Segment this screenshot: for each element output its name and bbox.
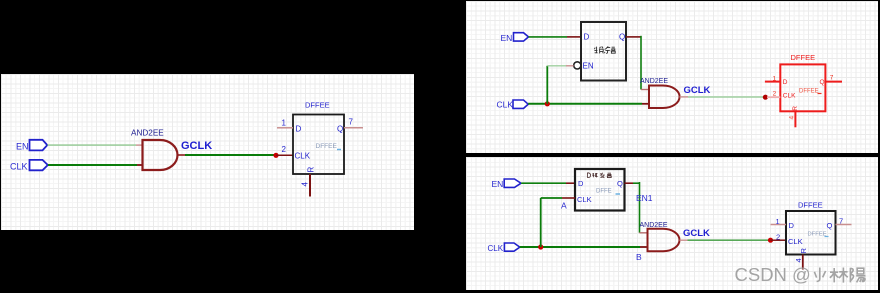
pin name D red	[783, 79, 788, 86]
svg-text:EN: EN	[492, 179, 504, 189]
latch pin name D	[584, 33, 590, 42]
svg-text:7: 7	[830, 75, 834, 82]
svg-text:Q: Q	[617, 179, 623, 188]
wire latch Q to AND gate	[626, 36, 649, 90]
svg-text:D: D	[789, 221, 795, 230]
svg-text:R: R	[799, 248, 808, 254]
panel 2 drawing	[466, 1, 878, 153]
wire Q to AND gate	[625, 182, 648, 233]
wire GCLK to DFF	[680, 239, 771, 241]
port EN label	[16, 142, 29, 152]
pin name CLK	[788, 237, 803, 246]
pin 1 stub	[277, 127, 293, 129]
pin number 1	[776, 217, 780, 226]
svg-text:Q: Q	[619, 33, 625, 42]
svg-text:Q: Q	[337, 125, 343, 134]
svg-text:DFFEE: DFFEE	[316, 143, 338, 150]
latch pin name EN	[583, 62, 594, 71]
svg-text:Q: Q	[820, 79, 825, 86]
watermark CSDN	[735, 264, 866, 285]
pin name Q	[827, 221, 833, 230]
pin name R rotated	[307, 167, 316, 173]
DFF U8 box	[786, 211, 836, 255]
svg-text:GCLK: GCLK	[684, 85, 711, 96]
pin number 1	[282, 119, 287, 128]
svg-text:CSDN @: CSDN @	[735, 264, 811, 285]
block type label D触发器	[587, 173, 611, 178]
pin number 4 rotated	[794, 258, 803, 262]
latch EN bubble	[574, 62, 581, 69]
svg-text:CLK: CLK	[788, 237, 803, 246]
pin name D	[296, 125, 302, 134]
port EN label	[501, 33, 513, 43]
svg-text:1: 1	[282, 119, 287, 128]
label DFFEE	[798, 201, 823, 210]
pin number 7	[349, 118, 354, 127]
svg-text:CLK: CLK	[488, 244, 504, 253]
svg-text:DFFEE: DFFEE	[798, 201, 823, 210]
label DFFEE red	[791, 53, 816, 62]
pin name Q red	[820, 79, 825, 86]
wire CLK branch to block CLK	[541, 198, 575, 247]
svg-text:2: 2	[282, 145, 287, 154]
pin 4 wire R	[309, 174, 311, 197]
svg-text:D: D	[578, 179, 584, 188]
block pin name CLK	[577, 195, 592, 204]
svg-text:4: 4	[794, 258, 803, 262]
pin number 4 rotated	[301, 182, 310, 187]
AND gate U7	[648, 229, 680, 251]
DFF U2 box	[293, 115, 344, 175]
net label GCLK	[181, 140, 212, 152]
svg-text:DFFE: DFFE	[596, 189, 612, 195]
svg-text:7: 7	[839, 217, 843, 226]
svg-text:R: R	[792, 106, 799, 111]
pin number 7 red	[830, 75, 834, 82]
svg-text:AND2EE: AND2EE	[640, 222, 668, 229]
pin 2 stub CLK	[771, 239, 787, 241]
net label GCLK	[684, 85, 711, 96]
svg-text:AND2EE: AND2EE	[131, 129, 164, 138]
svg-text:D: D	[584, 33, 590, 42]
label AND2EE	[640, 222, 668, 229]
port CLK	[504, 243, 519, 251]
svg-text:DFFEE: DFFEE	[305, 101, 330, 110]
svg-text:7: 7	[349, 118, 354, 127]
wire EN to DFF block	[521, 182, 575, 184]
block pin name D	[578, 179, 584, 188]
schematic sheet panel 2 (top right)	[466, 1, 878, 153]
net label GCLK	[683, 228, 710, 239]
svg-text:1: 1	[773, 76, 777, 83]
latch pin name Q	[619, 33, 625, 42]
wire EN to latch D	[529, 36, 582, 38]
AND gate U1	[143, 140, 178, 170]
svg-text:2: 2	[776, 233, 780, 242]
svg-text:R: R	[307, 167, 316, 173]
pin number 7	[839, 217, 843, 226]
port CLK	[30, 160, 48, 170]
junction dot DFF clk	[768, 238, 773, 243]
schematic sheet panel 3 (bottom right)	[466, 157, 878, 290]
svg-text:GCLK: GCLK	[683, 228, 710, 239]
svg-text:D: D	[296, 125, 302, 134]
svg-text:A: A	[561, 201, 567, 211]
latch type text 锁存器	[594, 46, 615, 53]
pin 7 stub	[344, 127, 363, 129]
wire CLK to AND gate	[520, 246, 648, 248]
svg-text:D: D	[783, 79, 788, 86]
wire CLK to AND gate	[48, 164, 142, 166]
svg-text:CLK: CLK	[295, 152, 311, 161]
junction dot	[273, 153, 278, 158]
pin number 4 red rotated	[789, 116, 796, 120]
port CLK label	[488, 244, 504, 253]
wire EN to AND gate	[48, 144, 143, 146]
pin 2 stub CLK	[276, 154, 293, 156]
pin 7 stub	[836, 224, 852, 226]
svg-text:B: B	[636, 252, 642, 262]
svg-text:EN: EN	[501, 33, 513, 43]
svg-text:1: 1	[776, 217, 780, 226]
block type text DFFE_	[596, 189, 620, 195]
svg-text:CLK: CLK	[10, 161, 28, 171]
port EN	[30, 140, 48, 151]
svg-text:AND2EE: AND2EE	[640, 78, 668, 85]
svg-text:EN: EN	[583, 62, 594, 71]
pin name R rotated	[799, 248, 808, 254]
net label EN1	[636, 193, 653, 203]
svg-text:4: 4	[301, 182, 310, 187]
svg-text:Q: Q	[827, 221, 833, 230]
net label B	[636, 252, 642, 262]
pin 7 stub red	[825, 81, 842, 83]
pin 4 wire R red	[794, 111, 796, 127]
pin 1 stub	[771, 224, 787, 226]
svg-text:DFFEE: DFFEE	[799, 89, 819, 95]
net label A	[561, 201, 567, 211]
svg-text:CLK: CLK	[783, 93, 796, 100]
port EN label	[492, 179, 504, 189]
pin number 2	[282, 145, 287, 154]
label AND2EE	[131, 129, 164, 138]
svg-text:EN: EN	[16, 142, 29, 152]
pin number 2 red	[773, 90, 777, 97]
pin name Q	[337, 125, 343, 134]
part type text DFFEE_	[316, 143, 342, 150]
pin 2 stub pale	[767, 96, 780, 98]
port CLK label	[497, 99, 514, 109]
wire GCLK to DFF	[680, 96, 766, 98]
svg-text:DFFEE: DFFEE	[791, 53, 816, 62]
pin number 1 red	[773, 76, 777, 83]
pin name CLK red	[783, 93, 796, 100]
svg-text:CLK: CLK	[497, 99, 514, 109]
junction dot DFF clk	[763, 95, 768, 100]
selected DFF U5 box (red)	[780, 64, 825, 111]
pin number 2	[776, 233, 780, 242]
wire GCLK gate output to DFF	[178, 154, 277, 156]
part type text DFFEE_ red	[799, 89, 822, 95]
junction dot CLK	[538, 244, 543, 249]
port EN	[514, 33, 529, 41]
wire CLK branch to latch EN	[547, 66, 573, 104]
pin 4 wire R	[802, 255, 804, 270]
AND gate U4	[649, 86, 680, 109]
schematic sheet panel 1 (left)	[1, 74, 414, 230]
latch U3 box	[581, 22, 626, 81]
svg-text:GCLK: GCLK	[181, 140, 212, 152]
svg-text:2: 2	[773, 90, 777, 97]
pin name R red rotated	[792, 106, 799, 111]
svg-text:EN1: EN1	[636, 193, 653, 203]
panel 3 drawing	[466, 157, 878, 290]
svg-text:DFFEE: DFFEE	[808, 232, 827, 238]
panel 1 drawing	[1, 74, 414, 230]
port CLK label	[10, 161, 28, 171]
port EN	[504, 179, 521, 187]
pin 1 stub red	[765, 81, 780, 83]
pin name D	[789, 221, 795, 230]
junction dot CLK	[545, 101, 550, 106]
part type text DFFEE_	[808, 232, 829, 238]
DFF block U6 box	[575, 169, 625, 211]
block pin name Q	[617, 179, 623, 188]
svg-text:CLK: CLK	[577, 195, 592, 204]
label AND2EE	[640, 78, 668, 85]
label DFFEE	[305, 101, 330, 110]
wire CLK to AND gate	[528, 103, 649, 105]
pin name CLK	[295, 152, 311, 161]
port CLK	[513, 100, 528, 108]
